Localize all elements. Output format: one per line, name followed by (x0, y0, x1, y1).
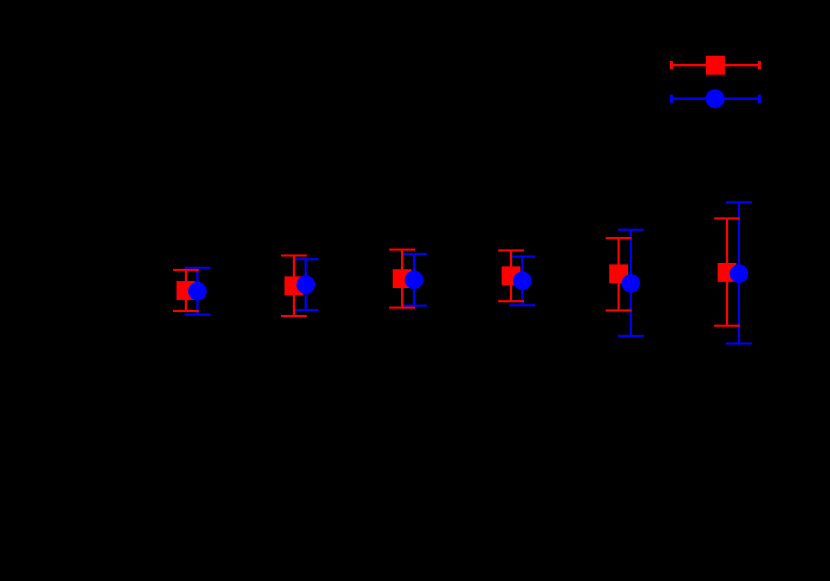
series-2 blue circle marker point 4 (513, 272, 532, 291)
series-1 red errorbar point 3 (389, 249, 415, 309)
series-2 blue errorbar point 6 (726, 201, 752, 344)
series-1 red errorbar point 1 (173, 269, 199, 312)
legend blue circle marker (706, 89, 725, 108)
series-2 blue circle marker point 1 (188, 282, 207, 301)
series-1 red square marker point 3 (393, 269, 412, 288)
series-1 red errorbar point 6 (714, 217, 740, 326)
legend red square marker (706, 56, 725, 75)
series-1 red square marker point 1 (177, 281, 196, 300)
series-2 blue errorbar point 2 (293, 258, 319, 311)
series-2 blue errorbar point 4 (509, 255, 535, 306)
series-1 red square marker point 4 (502, 266, 521, 285)
series-2 blue errorbar point 5 (618, 229, 644, 337)
series-1 red square marker point 6 (718, 263, 737, 282)
series-2 blue circle marker point 6 (730, 264, 749, 283)
series-2 blue circle marker point 2 (296, 275, 315, 294)
series-1 red square marker point 5 (609, 264, 628, 283)
series-1 red errorbar point 2 (281, 254, 307, 317)
series-2 blue circle marker point 3 (405, 271, 424, 290)
series-2 blue errorbar point 3 (401, 253, 427, 307)
legend blue errorbar handle (670, 95, 761, 103)
series-1 red square marker point 2 (285, 276, 304, 295)
series-2 blue circle marker point 5 (622, 274, 641, 293)
legend red errorbar handle (670, 61, 761, 69)
series-1 red errorbar point 4 (498, 249, 524, 302)
series-2 blue errorbar point 1 (185, 267, 211, 316)
series-1 red errorbar point 5 (606, 237, 632, 312)
